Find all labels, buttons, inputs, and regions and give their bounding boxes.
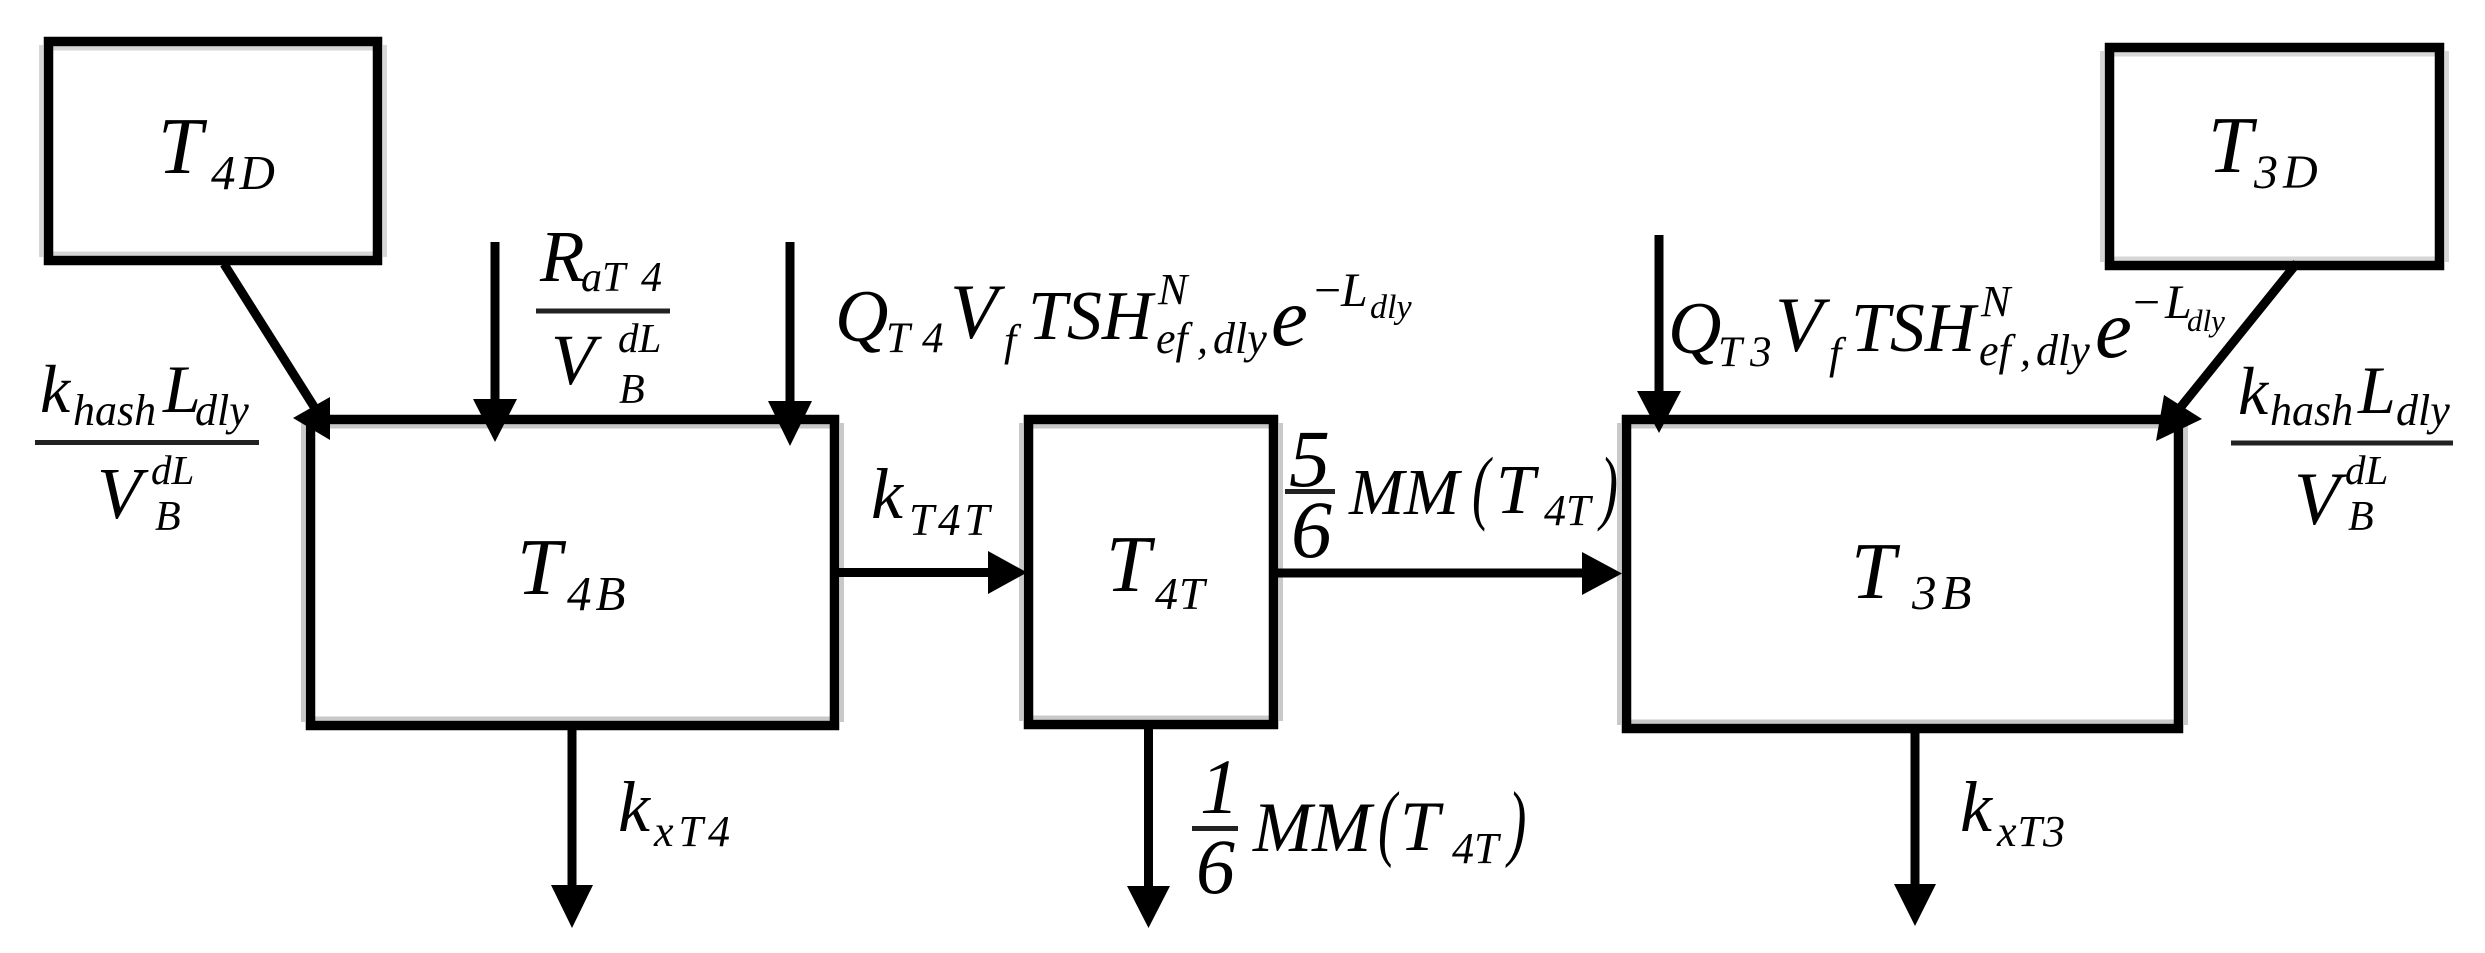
svg-text:k: k [871,454,905,534]
arrowhead kxT4 [551,885,593,928]
svg-text:6: 6 [1291,484,1332,575]
RaT4 fraction bar [536,309,670,314]
svg-text:dly: dly [1213,314,1267,363]
svg-text:aT: aT [581,255,628,301]
svg-text:−: − [2130,276,2162,329]
svg-text:T: T [1851,528,1901,616]
box T3B ghost [1619,423,2186,725]
svg-text:3: 3 [1749,329,1772,376]
svg-text:N: N [1157,265,1190,314]
svg-text:T: T [886,315,913,362]
box T4T [1029,420,1274,725]
svg-text:e: e [2095,283,2132,375]
svg-text:hash: hash [2270,386,2353,435]
arrowhead T3D to T3B [2156,395,2202,441]
svg-text:k: k [618,767,652,847]
arrow T3D to T3B diagonal [2180,263,2297,408]
svg-text:(: ( [1472,442,1493,533]
svg-text:e: e [1271,271,1308,363]
box T3D [2110,48,2440,266]
svg-text:B: B [619,367,645,413]
box T3B [1627,420,2179,729]
svg-text:V: V [1775,281,1831,368]
svg-text:dly: dly [2396,386,2450,435]
arrow 5/6MM from T4T to T3B [1275,569,1586,578]
svg-text:V: V [950,268,1006,355]
svg-text:T: T [158,103,208,191]
arrow RaT4 into T4B [491,242,500,404]
box T4D ghost [41,45,385,257]
svg-text:4D: 4D [211,145,279,200]
svg-text:V: V [551,320,602,400]
svg-text:k: k [40,351,72,427]
svg-text:−: − [1311,264,1343,317]
svg-text:Q: Q [835,276,888,358]
svg-text:dL: dL [618,315,661,361]
svg-text:L: L [2357,352,2396,428]
box T3D ghost [2102,51,2447,262]
svg-text:): ) [1505,774,1526,869]
svg-text:V: V [97,453,149,534]
svg-text:B: B [155,494,181,540]
svg-text:,: , [2020,326,2031,375]
box T4T ghost [1021,423,1281,721]
svg-text:N: N [1980,277,2013,326]
svg-text:T: T [1718,329,1745,376]
svg-text:1: 1 [1200,743,1239,830]
svg-text:4T: 4T [1544,486,1594,535]
svg-text:k: k [2238,353,2270,429]
svg-text:3D: 3D [2253,146,2323,199]
svg-text:T: T [2208,102,2258,190]
arrow kT4T from T4B to T4T [836,568,992,577]
arrowhead kxT3 [1894,884,1936,926]
left fraction bar [35,440,259,445]
arrow kxT3 out of T3B [1911,730,1920,890]
svg-text:dly: dly [2036,326,2090,375]
svg-text:4T: 4T [1155,568,1208,619]
svg-text:L: L [1340,264,1368,317]
svg-text:T: T [1106,521,1156,609]
arrowhead 5/6MM [1582,552,1622,595]
svg-text:dL: dL [2345,447,2388,493]
svg-text:4B: 4B [567,566,629,621]
svg-text:T4T: T4T [909,495,994,545]
svg-text:6: 6 [1196,823,1235,910]
box T4B ghost [303,423,842,722]
svg-text:xT3: xT3 [1996,807,2066,856]
arrowhead kT4T [988,551,1027,594]
svg-text:TSH: TSH [1851,290,1979,367]
arrowhead QT3 [1637,391,1681,433]
svg-text:(: ( [1378,774,1400,869]
arrow QT3 into T3B [1655,235,1664,396]
svg-text:,: , [1197,314,1208,363]
svg-text:dly: dly [1370,289,1412,326]
svg-text:dly: dly [2187,303,2225,338]
svg-text:4T: 4T [1452,824,1502,873]
arrow kxT4 out of T4B [568,728,577,890]
svg-text:Q: Q [1668,288,1721,370]
arrowhead RaT4 [473,399,517,442]
svg-text:dly: dly [195,386,249,435]
svg-text:hash: hash [73,386,156,435]
box T4B [311,420,835,726]
svg-text:3B: 3B [1911,565,1976,620]
svg-text:B: B [2348,494,2374,540]
svg-text:R: R [539,216,585,297]
svg-text:MM: MM [1252,789,1375,867]
svg-text:MM: MM [1348,456,1463,529]
svg-text:xT4: xT4 [653,807,735,856]
svg-text:4: 4 [922,315,944,362]
svg-text:T: T [1400,788,1444,866]
svg-text:k: k [1960,767,1994,847]
svg-text:): ) [1597,442,1618,533]
svg-text:T: T [517,524,567,612]
arrowhead 1/6MM [1127,886,1170,928]
svg-text:4: 4 [641,255,662,301]
svg-text:T: T [1496,452,1540,529]
arrowhead QT4 [768,401,812,446]
arrow QT4 into T4B [786,242,795,406]
arrow 1/6MM out of T4T [1144,727,1153,892]
box T4D [49,42,378,261]
arrowhead T4D to T4B [293,397,330,440]
svg-text:dL: dL [151,447,194,493]
right fraction bar [2231,441,2453,446]
svg-text:TSH: TSH [1028,278,1156,355]
arrow T4D to T4B diagonal [224,264,318,413]
